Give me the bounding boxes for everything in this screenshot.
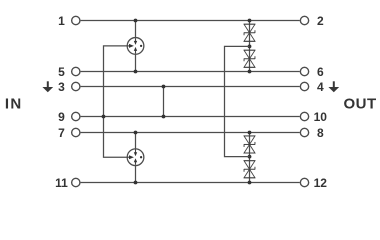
- svg-text:IN: IN: [5, 96, 23, 113]
- junction row11/TVS chain: [248, 181, 252, 185]
- wire GDT F1 bottom lead: [135, 54, 137, 71]
- suppressor diode D4 (bidirectional): [244, 161, 255, 178]
- wire TVS chain top (row1 to row5): [249, 21, 251, 72]
- junction row5/F1: [134, 70, 138, 74]
- junction TVS midpoint bottom (node B): [248, 155, 252, 159]
- terminal 10: [300, 110, 327, 124]
- wire TVS chain bottom (row7 to row11): [249, 133, 251, 183]
- gas discharge tube F1: [127, 38, 144, 55]
- wire GDT F2 bottom lead: [135, 166, 137, 183]
- junction row3/link: [162, 85, 166, 89]
- terminal 1: [58, 14, 80, 28]
- suppressor diode D2 (bidirectional): [244, 50, 255, 67]
- terminal 5: [58, 65, 80, 79]
- wire row 7-8: [81, 132, 300, 134]
- suppressor diode D1 (bidirectional): [244, 24, 255, 41]
- terminal 2: [300, 14, 324, 28]
- svg-text:6: 6: [317, 65, 324, 79]
- terminal 4: [300, 80, 324, 94]
- svg-text:8: 8: [317, 126, 324, 140]
- svg-text:OUT: OUT: [344, 95, 377, 112]
- gas discharge tube F2: [127, 149, 144, 166]
- svg-text:11: 11: [55, 176, 68, 190]
- terminal 7: [58, 126, 80, 140]
- junction TVS midpoint top (node A): [248, 45, 252, 49]
- wire link row3 to row9: [163, 87, 165, 117]
- suppressor diode D3 (bidirectional): [244, 136, 255, 153]
- svg-text:2: 2: [317, 14, 324, 28]
- wire row 5-6: [81, 71, 300, 73]
- ground symbol left (terminal 3): [42, 81, 53, 92]
- junction row1/F1: [134, 19, 138, 23]
- wire GDT electrode bus (F1/F2 center electrodes to row 9): [104, 46, 128, 157]
- wire row 11-12: [81, 182, 300, 184]
- svg-text:10: 10: [314, 110, 328, 124]
- terminal 11: [55, 176, 80, 190]
- terminal 8: [300, 126, 324, 140]
- wire row 1-2: [81, 20, 300, 22]
- svg-text:4: 4: [317, 80, 324, 94]
- svg-text:3: 3: [58, 80, 65, 94]
- svg-text:7: 7: [58, 126, 65, 140]
- svg-text:5: 5: [58, 65, 65, 79]
- junction row9/link: [162, 115, 166, 119]
- wire TVS midpoint link (node A to node B): [225, 46, 250, 156]
- junction row7/F2: [134, 131, 138, 135]
- wire row 9-10: [81, 116, 300, 118]
- junction row1/TVS chain: [248, 19, 252, 23]
- terminal 12: [300, 176, 327, 190]
- terminal 6: [300, 65, 324, 79]
- svg-text:12: 12: [314, 176, 328, 190]
- svg-text:1: 1: [58, 14, 65, 28]
- wire GDT F2 top lead: [135, 133, 137, 149]
- wire row 3-4: [81, 86, 300, 88]
- svg-text:9: 9: [58, 110, 65, 124]
- junction row9/bus: [102, 115, 106, 119]
- junction row11/F2: [134, 181, 138, 185]
- junction row5/TVS chain: [248, 70, 252, 74]
- terminal 9: [58, 110, 80, 124]
- wire GDT F1 top lead: [135, 21, 137, 38]
- terminal 3: [58, 80, 80, 94]
- junction row7/TVS chain: [248, 131, 252, 135]
- ground symbol right (terminal 4): [328, 81, 339, 92]
